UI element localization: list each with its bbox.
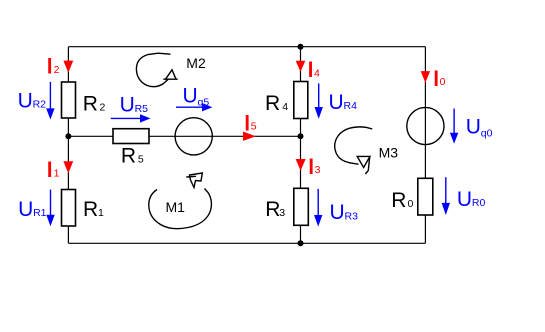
svg-text:M2: M2 xyxy=(186,55,206,71)
svg-text:R: R xyxy=(83,198,98,221)
svg-text:R1: R1 xyxy=(33,207,47,219)
svg-text:I: I xyxy=(47,159,53,182)
node top middle xyxy=(298,44,304,50)
wire middle horizontal xyxy=(68,135,300,137)
mesh arrow M2 xyxy=(136,53,177,86)
svg-text:U: U xyxy=(18,198,33,221)
svg-text:R5: R5 xyxy=(135,103,149,115)
svg-text:2: 2 xyxy=(54,64,60,76)
svg-text:I: I xyxy=(308,155,314,178)
node bottom middle xyxy=(298,240,304,246)
voltage source Uq0 xyxy=(407,107,444,144)
label UR2 xyxy=(18,89,47,112)
svg-text:q0: q0 xyxy=(481,128,493,140)
svg-text:I: I xyxy=(244,112,250,135)
resistor R4 xyxy=(294,82,308,119)
label R0 xyxy=(391,189,413,212)
label R4 xyxy=(265,92,288,115)
wire middle branch xyxy=(300,47,302,244)
svg-text:M1: M1 xyxy=(166,199,186,215)
svg-text:5: 5 xyxy=(251,121,257,133)
svg-text:R: R xyxy=(121,144,136,167)
label I4 xyxy=(308,59,320,82)
resistor R2 xyxy=(62,82,76,118)
svg-text:U: U xyxy=(329,91,344,114)
current arrow I2 xyxy=(63,61,73,73)
svg-text:1: 1 xyxy=(54,167,60,179)
label I5 xyxy=(244,112,256,135)
svg-text:4: 4 xyxy=(282,101,288,113)
svg-text:R: R xyxy=(265,198,280,221)
svg-text:U: U xyxy=(183,84,198,107)
svg-text:R: R xyxy=(265,92,280,115)
current arrow I1 xyxy=(63,161,73,173)
svg-text:I: I xyxy=(47,55,53,78)
label I3 xyxy=(308,155,320,178)
label R1 xyxy=(83,198,104,221)
label UR0 xyxy=(457,188,486,211)
svg-text:4: 4 xyxy=(314,67,320,79)
wire bottom xyxy=(68,242,425,244)
voltage arrow UR0 xyxy=(442,177,450,215)
voltage arrow UR3 xyxy=(314,189,322,227)
svg-text:I: I xyxy=(433,67,439,90)
mesh arrow M3 xyxy=(335,127,373,174)
voltage arrow UR5 xyxy=(111,114,151,122)
svg-text:U: U xyxy=(457,188,472,211)
svg-text:R3: R3 xyxy=(345,210,359,222)
label R5 xyxy=(121,144,144,167)
current arrow I5 xyxy=(243,132,256,141)
wire right branch xyxy=(424,47,426,244)
resistor R1 xyxy=(62,190,76,227)
voltage arrow UR2 xyxy=(46,82,54,120)
svg-text:3: 3 xyxy=(315,164,321,176)
svg-text:R: R xyxy=(391,189,406,212)
svg-text:R2: R2 xyxy=(33,99,47,111)
svg-text:M3: M3 xyxy=(379,145,399,161)
label I1 xyxy=(47,159,60,182)
resistor R5 xyxy=(113,129,149,144)
voltage source Uq5 xyxy=(175,118,212,155)
voltage arrow UR4 xyxy=(315,83,323,119)
label R3 xyxy=(265,198,285,221)
voltage arrow Uq5 xyxy=(176,103,212,111)
svg-text:2: 2 xyxy=(100,101,106,113)
svg-text:0: 0 xyxy=(440,76,446,88)
label I0 xyxy=(433,67,445,90)
node left middle xyxy=(65,133,71,139)
label Uq5 xyxy=(183,84,210,108)
label UR1 xyxy=(18,198,47,221)
current arrow I0 xyxy=(421,71,430,83)
svg-text:U: U xyxy=(330,201,345,224)
label UR4 xyxy=(329,91,358,114)
svg-text:q5: q5 xyxy=(198,96,210,108)
svg-text:R: R xyxy=(83,92,98,115)
svg-text:U: U xyxy=(18,89,33,112)
svg-text:0: 0 xyxy=(408,198,414,210)
current arrow I3 xyxy=(296,159,306,171)
wire left branch xyxy=(67,47,69,244)
svg-text:U: U xyxy=(120,94,135,117)
svg-text:5: 5 xyxy=(138,153,144,165)
svg-text:1: 1 xyxy=(98,207,104,219)
voltage arrow UR1 xyxy=(46,190,54,227)
resistor R0 xyxy=(418,178,433,215)
label UR3 xyxy=(330,201,359,224)
svg-text:I: I xyxy=(308,59,314,82)
label I2 xyxy=(47,55,60,78)
mesh arrow M1 xyxy=(149,173,212,229)
node center xyxy=(298,133,304,139)
current arrow I4 xyxy=(296,61,306,72)
svg-text:3: 3 xyxy=(279,207,285,219)
svg-text:U: U xyxy=(466,116,481,139)
voltage arrow Uq0 xyxy=(450,109,458,144)
resistor R3 xyxy=(294,188,309,225)
svg-text:R4: R4 xyxy=(344,100,358,112)
label UR5 xyxy=(120,94,149,117)
label R2 xyxy=(83,92,106,115)
label Uq0 xyxy=(466,116,493,140)
wire top xyxy=(68,46,425,48)
svg-text:R0: R0 xyxy=(472,197,486,209)
